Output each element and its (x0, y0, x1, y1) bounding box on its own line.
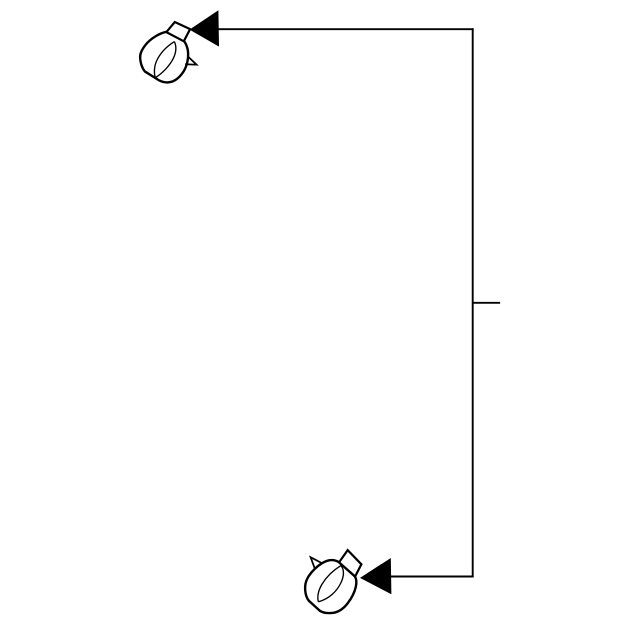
wire: right vertical leader line (472, 28, 474, 577)
wire: bottom horizontal leader line (391, 576, 474, 578)
wire: reference stub at middle right (473, 302, 500, 304)
arrowhead pointing to socket 2 (bottom) (360, 558, 391, 594)
socket 2 connector tab (339, 550, 361, 576)
socket 1 opening inner arc (155, 42, 176, 78)
socket 2 body (305, 560, 356, 613)
socket 1 locking spike (185, 56, 197, 64)
socket 2 opening (lens ellipse) (318, 566, 341, 602)
socket 1 connector tab (166, 22, 190, 41)
wire: top horizontal leader line (219, 28, 474, 30)
socket 2 opening inner arc (318, 566, 343, 602)
bulb socket 2 (bottom) (305, 550, 361, 613)
socket 1 opening (lens ellipse) (154, 42, 174, 78)
bulb socket 1 (top left) (140, 22, 196, 82)
socket 2 locking spike (311, 557, 323, 569)
arrowhead pointing to socket 1 (top left) (190, 10, 220, 46)
socket 1 body (140, 32, 188, 83)
